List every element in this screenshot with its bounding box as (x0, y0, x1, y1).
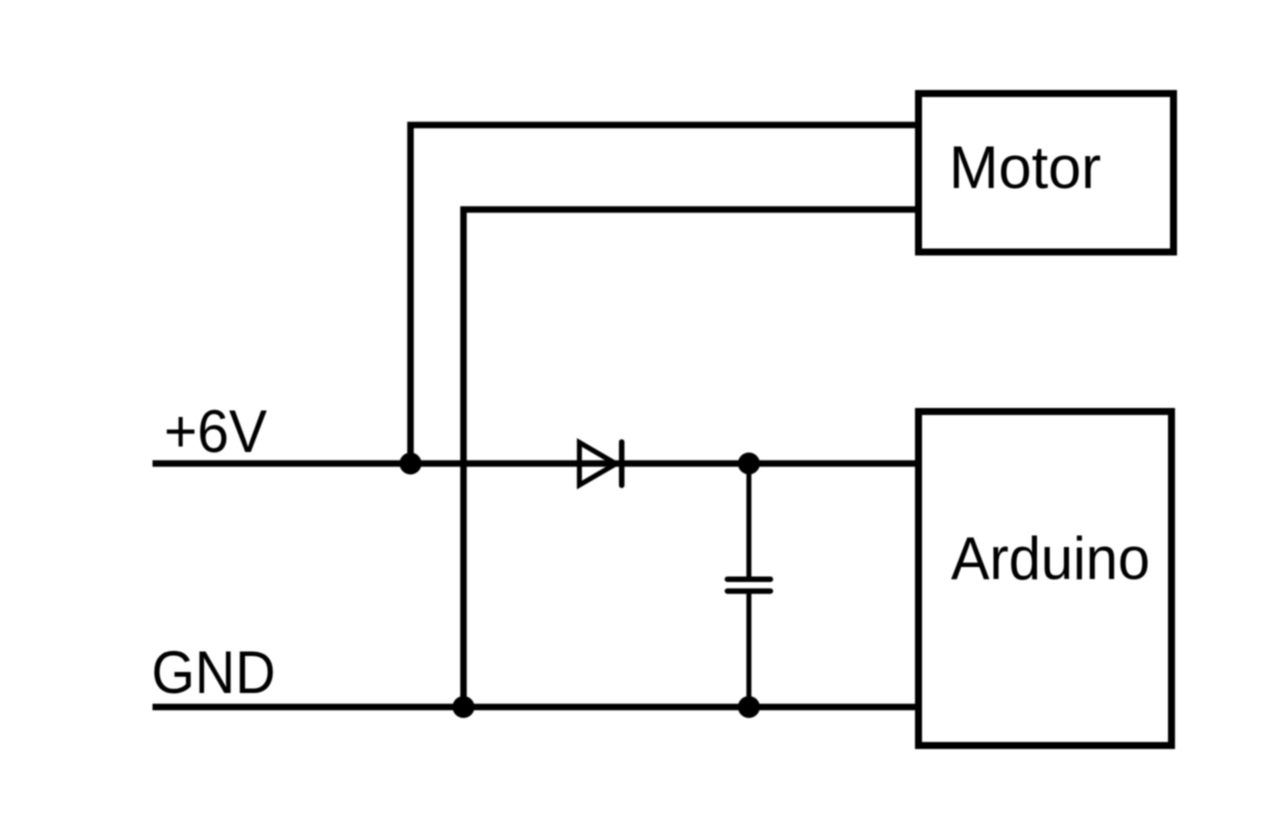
svg-text:Motor: Motor (949, 134, 1101, 201)
svg-text:+6V: +6V (164, 398, 267, 465)
junction node: GND / capacitor (738, 696, 760, 718)
Arduino block (919, 412, 1172, 746)
svg-text:GND: GND (152, 639, 276, 706)
capacitor C1 top plate (727, 576, 770, 582)
wire capacitor top lead (746, 464, 751, 579)
wire +6V rail (153, 460, 919, 467)
svg-text:Arduino: Arduino (951, 525, 1150, 592)
wire Motor bottom lead (from GND node up and right to Motor) (464, 210, 919, 708)
junction node: GND / motor lead (453, 696, 475, 718)
wire Motor top lead (from +6V node up and right to Motor) (411, 125, 919, 464)
junction node: +6V / motor lead (400, 453, 422, 475)
diode D1 triangle (anode) (579, 443, 616, 486)
junction node: +6V / capacitor (738, 453, 760, 475)
wire capacitor bottom lead (746, 592, 751, 707)
Motor block (919, 94, 1174, 253)
capacitor C1 bottom plate (727, 588, 770, 594)
wire GND rail (153, 704, 919, 711)
diode D1 cathode bar (619, 442, 625, 485)
